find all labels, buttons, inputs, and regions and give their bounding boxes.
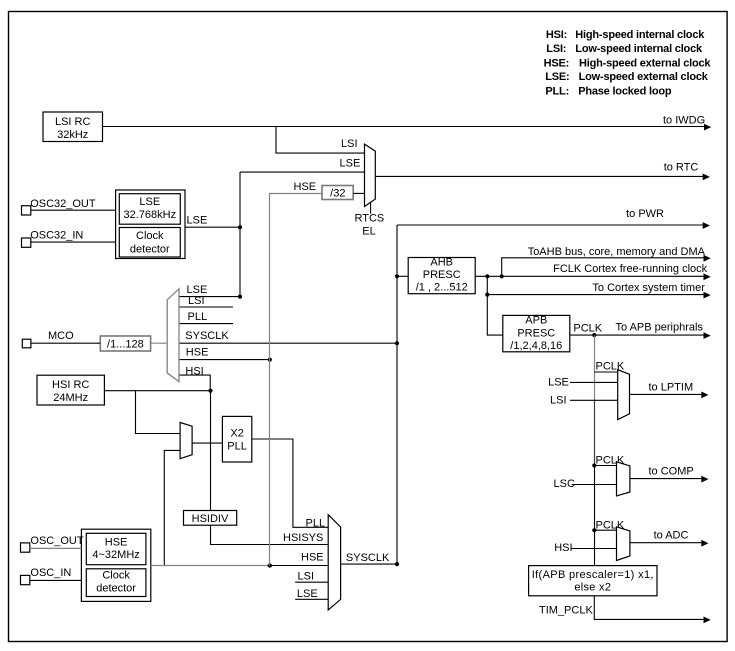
wire HSI trunk down to HSIDIV — [210, 391, 212, 511]
svg-text:HSE: HSE — [301, 552, 324, 564]
wire HSE to MCO mux — [179, 359, 270, 361]
mux ADC clock selector — [617, 527, 630, 561]
svg-text:AHB: AHB — [430, 256, 453, 268]
junction SYSCLK trunk bottom — [395, 562, 399, 566]
wire SYSCLK trunk vertical — [396, 225, 398, 564]
junction HSI output — [208, 389, 212, 393]
wire HSI to PLL-source mux input 1 — [136, 391, 181, 434]
wire ADC mux output — [630, 542, 702, 544]
svg-text:LSE: LSE — [297, 588, 318, 600]
svg-text:/32: /32 — [330, 188, 345, 200]
wire OSC_IN — [30, 579, 82, 581]
svg-text:SYSCLK: SYSCLK — [346, 552, 390, 564]
arrow to AHB bus — [704, 255, 711, 262]
svg-text:LSE: LSE — [187, 214, 208, 226]
svg-text:X2: X2 — [230, 428, 243, 440]
svg-text:LSI: LSI — [298, 571, 315, 583]
svg-text:/1,2,4,8,16: /1,2,4,8,16 — [510, 340, 562, 352]
wire LSE oscillator output — [185, 226, 240, 228]
wire HSI RC output — [104, 390, 210, 392]
svg-text:HSI:: HSI: — [546, 29, 567, 41]
svg-text:High-speed internal clock: High-speed internal clock — [575, 29, 705, 41]
arrow to PWR — [703, 222, 710, 229]
wire X2 PLL output to SYSCLK mux PLL input — [252, 439, 328, 527]
svg-text:/1...128: /1...128 — [107, 339, 144, 351]
oscillator LSI RC box — [43, 112, 103, 142]
junction AHB tap — [395, 274, 399, 278]
arrow to COMP — [701, 476, 708, 483]
svg-text:MCO: MCO — [48, 330, 74, 342]
svg-text:EL: EL — [362, 225, 375, 237]
arrow to RTC — [703, 174, 710, 181]
svg-text:LSI RC: LSI RC — [55, 116, 91, 128]
junction SYSCLK from MCO tap — [395, 341, 399, 345]
wire LSI to SYSCLK mux — [295, 581, 328, 583]
svg-text:LSE: LSE — [139, 196, 160, 208]
wire LSE to SYSCLK mux — [295, 598, 330, 600]
svg-text:LSI: LSI — [188, 295, 205, 307]
svg-text:24MHz: 24MHz — [53, 392, 88, 404]
svg-text:to COMP: to COMP — [649, 466, 694, 478]
svg-text:to RTC: to RTC — [664, 161, 699, 173]
wire HSE to /32 divider — [270, 193, 323, 196]
svg-text:LSE: LSE — [548, 377, 569, 389]
wire SYSCLK to MCO mux — [179, 342, 397, 344]
svg-text:PLL: PLL — [227, 441, 247, 453]
wire OSC_OUT — [30, 547, 82, 549]
arrow to LPTIM — [701, 392, 708, 399]
legend — [544, 29, 712, 97]
svg-text:OSC_OUT: OSC_OUT — [30, 535, 83, 547]
wire HSI to MCO mux — [179, 375, 210, 391]
wire LSI to LPTIM mux — [570, 399, 618, 401]
wire HSE oscillator output to SYSCLK mux — [151, 565, 270, 567]
wire HSE to PLL-source mux input 2 — [164, 450, 180, 565]
mux RTCSEL — [365, 144, 376, 206]
svg-text:HSE: HSE — [105, 536, 128, 548]
svg-text:To Cortex system timer: To Cortex system timer — [592, 282, 705, 294]
junction HSE distribution — [268, 563, 272, 567]
svg-text:Low-speed external clock: Low-speed external clock — [579, 71, 709, 83]
svg-text:HSISYS: HSISYS — [283, 532, 323, 544]
svg-text:PLL: PLL — [188, 311, 208, 323]
wire divider to MCO pad — [30, 342, 100, 344]
svg-text:PCLK: PCLK — [573, 322, 602, 334]
svg-text:OSC32_OUT: OSC32_OUT — [30, 198, 96, 210]
svg-text:PLL:: PLL: — [545, 85, 569, 97]
pad OSC_OUT — [21, 543, 30, 552]
multiplier APB x1 x2 box — [529, 566, 657, 596]
wire OSC32_IN — [31, 241, 116, 243]
arrow FCLK — [704, 273, 711, 280]
wire LSE to MCO mux — [179, 296, 240, 298]
svg-text:ToAHB bus, core, memory and DM: ToAHB bus, core, memory and DMA — [528, 246, 706, 258]
svg-text:LSE: LSE — [340, 158, 361, 170]
mux LPTIM clock selector — [618, 370, 630, 420]
wire PCLK from APB PRESC — [570, 334, 704, 336]
pad MCO — [22, 339, 31, 348]
svg-text:FCLK Cortex free-running clock: FCLK Cortex free-running clock — [553, 263, 708, 275]
HSE clock detector box — [86, 569, 146, 597]
svg-text:HSE: HSE — [294, 181, 317, 193]
wire PCLK trunk vertical — [594, 335, 596, 400]
wire PCLK to COMP mux — [594, 465, 616, 467]
svg-text:32kHz: 32kHz — [57, 129, 88, 141]
wire HSE vertical distribution — [269, 193, 271, 565]
svg-text:LSI: LSI — [341, 138, 358, 150]
arrow to Cortex system timer — [704, 292, 711, 299]
arrow TIM_PCLK — [704, 617, 711, 624]
pad OSC32_IN — [22, 238, 31, 247]
junction HSE to MCO — [268, 358, 272, 362]
svg-text:HSIDIV: HSIDIV — [192, 513, 229, 525]
wire LPTIM mux output — [630, 393, 702, 395]
junction LSE to MCO mux — [238, 295, 242, 299]
wire COMP mux output — [630, 478, 702, 480]
svg-text:HSI: HSI — [185, 365, 203, 377]
svg-text:LSC: LSC — [554, 478, 575, 490]
oscillator HSE box outer — [81, 529, 150, 601]
wire HSI to ADC mux — [571, 548, 617, 550]
wire to Cortex system timer — [487, 276, 704, 294]
svg-text:to ADC: to ADC — [654, 530, 689, 542]
svg-text:/1 , 2...512: /1 , 2...512 — [416, 282, 468, 294]
junction HCLK branch 1 — [485, 274, 489, 278]
junction PCLK to COMP — [592, 463, 596, 467]
wire LSI to MCO mux — [179, 306, 233, 308]
wire PLL-source mux to X2 PLL — [192, 442, 222, 444]
wire PCLK to ADC mux — [594, 529, 616, 531]
svg-text:32.768kHz: 32.768kHz — [124, 209, 177, 221]
prescaler AHB PRESC box — [408, 256, 475, 293]
wire HCLK from AHB PRESC (FCLK line) — [475, 275, 704, 277]
wire PWR tap — [397, 224, 704, 226]
oscillator HSI RC box — [37, 375, 104, 405]
wire SYSCLK to AHB PRESC — [397, 275, 408, 277]
svg-text:Low-speed internal clock: Low-speed internal clock — [575, 43, 703, 55]
svg-text:High-speed external clock: High-speed external clock — [579, 57, 711, 69]
mux MCO selector — [167, 289, 179, 382]
prescaler APB PRESC box — [503, 315, 570, 352]
svg-text:HSI RC: HSI RC — [52, 379, 89, 391]
pll X2 PLL box — [222, 416, 251, 462]
junction PCLK trunk top — [592, 333, 596, 337]
svg-text:else x2: else x2 — [574, 582, 611, 594]
svg-text:OSC32_IN: OSC32_IN — [30, 230, 83, 242]
wire PLL to MCO mux — [179, 323, 233, 325]
wire LSE vertical distribution — [239, 172, 241, 297]
junction Cortex timer corner — [485, 293, 489, 297]
divider /1...128 box — [100, 336, 150, 351]
junction LSE output — [238, 225, 242, 229]
wire /32 to RTC mux — [353, 192, 364, 194]
svg-text:HSI: HSI — [554, 542, 572, 554]
wire RTC mux output to RTC — [375, 175, 703, 177]
svg-text:LSI: LSI — [550, 394, 567, 406]
wire TIM_PCLK output — [594, 596, 704, 620]
wire to AHB bus — [502, 258, 704, 277]
junction PCLK to ADC — [592, 528, 596, 532]
svg-text:To APB periphrals: To APB periphrals — [616, 322, 704, 334]
arrow to IWDG — [704, 124, 711, 131]
LSE crystal box — [119, 194, 180, 225]
svg-text:LSI:: LSI: — [546, 43, 566, 55]
svg-text:PRESC: PRESC — [517, 327, 555, 339]
wire LSC to COMP mux — [572, 484, 617, 486]
junction HCLK branch 2 — [500, 274, 504, 278]
divider /32 box — [322, 186, 353, 200]
wire SYSCLK mux output to trunk — [341, 563, 397, 565]
wire OSC32_OUT — [31, 209, 116, 211]
mux COMP clock selector — [617, 462, 630, 496]
wire LSI to IWDG — [103, 126, 706, 128]
LSE clock detector box — [119, 228, 180, 258]
svg-text:4~32MHz: 4~32MHz — [92, 549, 139, 561]
pad OSC_IN — [21, 575, 30, 584]
svg-text:APB: APB — [525, 315, 547, 327]
svg-text:LSE:: LSE: — [545, 71, 569, 83]
wire LSE to LPTIM mux — [570, 381, 618, 383]
wire MCO mux output to divider — [151, 342, 168, 344]
svg-text:PRESC: PRESC — [423, 269, 461, 281]
svg-text:to PWR: to PWR — [626, 208, 664, 220]
wire PCLK to LPTIM mux — [594, 371, 617, 373]
svg-text:PLL: PLL — [306, 517, 326, 529]
svg-text:to LPTIM: to LPTIM — [649, 381, 694, 393]
svg-text:detector: detector — [130, 244, 170, 256]
svg-text:detector: detector — [96, 582, 136, 594]
arrow to ADC — [701, 540, 708, 547]
svg-text:TIM_PCLK: TIM_PCLK — [539, 605, 593, 617]
svg-text:Clock: Clock — [136, 230, 164, 242]
wire HSIDIV output HSISYS to SYSCLK mux — [211, 525, 329, 544]
svg-text:HSE:: HSE: — [544, 57, 569, 69]
pad OSC32_OUT — [22, 206, 31, 215]
svg-text:RTCS: RTCS — [355, 213, 385, 225]
oscillator LSE box outer — [116, 190, 185, 259]
wire LSI branch to RTC mux — [276, 127, 365, 154]
svg-text:HSE: HSE — [186, 346, 209, 358]
divider HSIDIV box — [184, 511, 237, 526]
svg-text:Clock: Clock — [102, 569, 130, 581]
svg-text:If(APB prescaler=1) x1,: If(APB prescaler=1) x1, — [532, 569, 654, 581]
svg-text:OSC_IN: OSC_IN — [30, 567, 71, 579]
HSE crystal box — [86, 533, 146, 564]
mux SYSCLK selector — [328, 515, 340, 610]
wire HCLK down to APB PRESC — [487, 295, 503, 336]
arrow to APB peripherals — [704, 332, 711, 339]
mux PLL source — [180, 423, 192, 459]
svg-text:to IWDG: to IWDG — [663, 115, 705, 127]
svg-text:Phase locked loop: Phase locked loop — [578, 85, 672, 97]
svg-text:SYSCLK: SYSCLK — [185, 330, 229, 342]
RTCSEL select stub — [370, 203, 372, 214]
wire LSE to RTC mux — [240, 171, 365, 173]
